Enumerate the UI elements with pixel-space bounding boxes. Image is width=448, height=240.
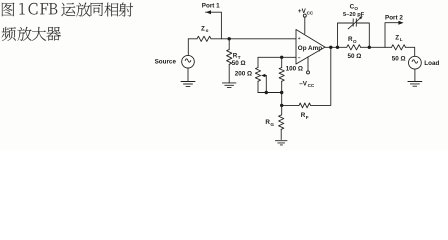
char 图 [2,3,15,17]
wire RG bottom lead [280,129,282,139]
resistor RG zigzag [279,115,284,129]
resistor RF zigzag [299,103,311,108]
port 2 arrowhead [398,21,403,25]
source top lead wire [187,39,189,56]
svg-text:F: F [306,115,309,120]
svg-text:200 Ω: 200 Ω [235,70,252,77]
wire 200 pot top lead [257,57,259,67]
char 同 [91,3,104,16]
svg-text:Source: Source [155,58,177,65]
node CO left tap [336,46,339,49]
ground under source [181,82,195,87]
terminal -Vcc circle [307,71,310,74]
resistor ZL zigzag [392,45,406,50]
char C [29,3,38,15]
node bottom rail junction [280,91,283,94]
port 1 stub wire [206,12,222,39]
svg-text:G: G [270,122,274,127]
svg-text:o: o [206,28,209,33]
wire inverting rail [258,56,296,58]
load bottom lead wire [414,69,416,81]
port 1 arrowhead [206,10,211,14]
resistor Zo zigzag [197,36,211,41]
wire CO branch [338,23,370,47]
node wiper junction [265,91,268,94]
svg-text:–: – [298,56,301,62]
op-amp U1 triangle [296,30,325,65]
svg-text:+V: +V [298,8,307,15]
node inverting rail junction [280,56,283,59]
source bottom lead wire [187,68,189,82]
svg-text:50 Ω: 50 Ω [232,60,246,67]
char 器 [46,27,61,41]
svg-text:5–20 pF: 5–20 pF [343,12,365,18]
svg-text:O: O [353,39,357,44]
svg-text:L: L [400,37,403,42]
svg-text:Op Amp: Op Amp [298,45,322,52]
svg-text:100 Ω: 100 Ω [286,65,303,72]
char 频 [2,27,16,41]
wire RG top lead [281,105,283,115]
char 相 [104,3,118,17]
wire ZL to load [405,47,414,56]
source V1 AC circle [182,55,195,68]
wire +Vcc pin [304,17,306,34]
wire down to feedback node [281,93,283,106]
wire 200 pot bottom lead [257,81,259,92]
node CO right tap [368,46,371,49]
char 射 [119,3,133,17]
svg-text:Load: Load [424,60,439,67]
svg-text:+: + [298,37,301,42]
potentiometer R1 200 ohm zigzag [255,68,260,82]
char 运 [61,3,75,17]
svg-text:50 Ω: 50 Ω [348,53,362,60]
resistor RO zigzag [347,45,361,50]
ground under load [408,82,422,87]
capacitor CO variable arrow [348,18,361,29]
svg-text:Z: Z [201,26,205,33]
char B [49,3,57,14]
terminal +Vcc circle [303,14,306,17]
wire -Vcc pin [307,57,309,71]
svg-text:50 Ω: 50 Ω [392,55,406,62]
wire 100 pot top lead [281,57,283,67]
port 2 stub wire [385,23,401,48]
node RF tap [329,46,332,49]
ground under RT [222,83,236,88]
svg-text:Port 1: Port 1 [202,3,220,10]
svg-text:CC: CC [307,10,314,15]
wire RF right lead up to output [311,47,331,105]
svg-text:O: O [354,6,358,11]
ground under RG [275,141,287,145]
char 放 [76,3,90,17]
wire wiper to bottom rail [265,76,267,93]
caption line 1: 图 1 CFB 运放同相射 [2,3,133,41]
wire output rail [325,46,347,48]
wire 100 pot bottom lead [281,81,283,92]
char 大 [32,27,46,41]
char 放 [18,27,32,41]
wiper arrow of 200 pot [263,75,267,77]
wire rail RO to ZL [361,46,392,48]
potentiometer R2 100 ohm zigzag [279,68,284,82]
wire bottom rail [258,92,282,94]
wire RT bottom lead [228,64,230,83]
resistor RT zigzag [227,50,232,65]
svg-text:–V: –V [299,80,308,87]
load circle AC [409,56,422,69]
node junction at RT [228,37,231,40]
svg-text:Z: Z [395,35,399,42]
wire rail to op-amp + input [211,38,296,40]
svg-text:CC: CC [308,83,315,88]
wire RT top lead [228,39,230,50]
svg-text:Port 2: Port 2 [385,15,403,22]
wire RF left lead [282,104,299,106]
char F [40,3,48,14]
char 1 [19,3,24,14]
capacitor CO plates [353,19,356,26]
node feedback junction [280,104,283,107]
wire input rail [188,38,197,40]
